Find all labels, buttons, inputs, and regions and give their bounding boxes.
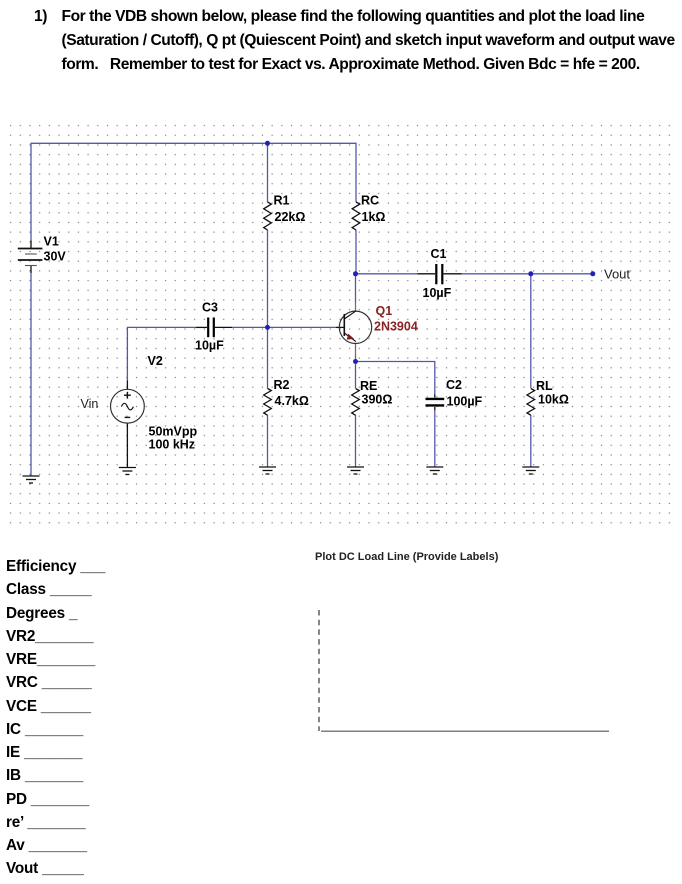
svg-text:R2: R2 xyxy=(274,378,290,392)
svg-text:Q1: Q1 xyxy=(376,304,393,318)
svg-text:R1: R1 xyxy=(274,194,290,208)
svg-text:10µF: 10µF xyxy=(423,286,452,300)
svg-text:22kΩ: 22kΩ xyxy=(275,210,306,224)
svg-text:390Ω: 390Ω xyxy=(362,393,393,407)
svg-text:1kΩ: 1kΩ xyxy=(362,210,386,224)
svg-text:V2: V2 xyxy=(148,354,163,368)
svg-text:10kΩ: 10kΩ xyxy=(538,393,569,407)
svg-text:4.7kΩ: 4.7kΩ xyxy=(275,394,309,408)
svg-text:Vin: Vin xyxy=(81,397,99,411)
svg-text:100µF: 100µF xyxy=(447,394,483,408)
svg-text:RL: RL xyxy=(536,379,553,393)
svg-text:RE: RE xyxy=(360,379,377,393)
svg-text:C2: C2 xyxy=(446,378,462,392)
svg-text:10µF: 10µF xyxy=(195,339,224,353)
svg-text:V1: V1 xyxy=(44,235,59,249)
svg-text:RC: RC xyxy=(361,194,379,208)
svg-text:50mVpp: 50mVpp xyxy=(149,424,198,438)
svg-text:2N3904: 2N3904 xyxy=(374,320,418,334)
svg-text:100 kHz: 100 kHz xyxy=(149,437,196,451)
svg-text:30V: 30V xyxy=(44,250,67,264)
svg-text:Vout: Vout xyxy=(604,267,630,282)
svg-text:C3: C3 xyxy=(202,301,218,315)
svg-text:C1: C1 xyxy=(431,247,447,261)
